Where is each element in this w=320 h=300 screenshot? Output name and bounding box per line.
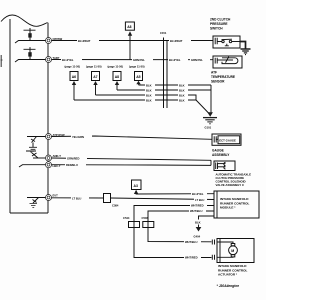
svg-text:(page 11-50): (page 11-50) [86, 65, 102, 69]
svg-text:C546: C546 [142, 216, 149, 220]
connector ref box A3 (to intake manifold runner control module) [132, 180, 142, 194]
scan artifact left edge [1, 55, 3, 67]
svg-text:RED/BLU: RED/BLU [66, 163, 78, 167]
ground reference G404 [194, 235, 201, 239]
ground bus junction to G101 [196, 85, 213, 117]
PCM internal wire row 5 [19, 165, 46, 167]
svg-text:C584: C584 [112, 204, 119, 208]
svg-text:A8: A8 [127, 25, 131, 29]
svg-text:WHT/RED: WHT/RED [185, 256, 198, 260]
PCM internal driver row 6 with ground [27, 198, 46, 208]
svg-text:GRN/YEL: GRN/YEL [191, 58, 203, 62]
svg-text:(page 11-50): (page 11-50) [65, 65, 81, 69]
PCM internal pull-up circuit row 1 [15, 28, 46, 43]
2ND CLUTCH PRESSURE SWITCH [210, 18, 240, 49]
connector ref box A7 [92, 72, 100, 96]
svg-text:BLK: BLK [195, 221, 201, 225]
in-line connector C546 on WHT/BLU [142, 216, 154, 228]
BLK ground wire 1 [139, 83, 212, 87]
svg-text:YEL/GRN: YEL/GRN [72, 135, 84, 139]
BLK ground wire from module [195, 216, 214, 232]
page reference texts above arrow connectors [65, 65, 145, 69]
INTAKE MANIFOLD RUNNER CONTROL ACTUATOR [212, 239, 254, 277]
svg-text:WHT/BLU: WHT/BLU [185, 240, 197, 244]
svg-text:AND-T: AND-T [53, 154, 62, 158]
BLK ground wire 3 [96, 93, 197, 100]
PCM internal driver row 4 [26, 151, 46, 158]
PCM internal pull-up circuit row 2 [15, 47, 46, 62]
svg-text:C544: C544 [123, 216, 130, 220]
svg-text:LT BLU: LT BLU [195, 198, 204, 202]
wire row1 BLU/WHT to 2nd clutch pressure switch [52, 39, 214, 43]
in-line connector C584 on row6 [104, 194, 119, 208]
terminal AND-T row4 [46, 154, 62, 161]
svg-text:LT BLU: LT BLU [72, 196, 81, 200]
BLK ground wire 4 [74, 98, 196, 102]
svg-text:BLU/YEL: BLU/YEL [169, 58, 181, 62]
wire row2 BLU/YEL - GRN/YEL to ATF temperature sensor [52, 58, 214, 62]
svg-text:G101: G101 [205, 126, 212, 130]
svg-text:WHT/BLU: WHT/BLU [190, 209, 202, 213]
svg-text:BLK: BLK [179, 83, 185, 87]
GAUGE ASSEMBLY with ECT GAUGE [212, 134, 241, 157]
svg-text:BLK: BLK [179, 93, 185, 97]
svg-text:PRESSURE: PRESSURE [210, 22, 228, 26]
svg-text:ATF: ATF [211, 71, 217, 75]
terminal TAFP row2 [46, 56, 60, 63]
wire WHT/BLU module to actuator [148, 209, 214, 244]
svg-text:SWITCH: SWITCH [210, 27, 223, 31]
connector ref box A8 [113, 72, 121, 91]
svg-text:BLK: BLK [179, 98, 185, 102]
connector C151 [160, 31, 167, 108]
branch wire with up arrow off row2 [128, 31, 132, 59]
svg-text:A8: A8 [115, 75, 119, 79]
BLK ground wire 2 [117, 88, 211, 92]
svg-text:WHT/RED: WHT/RED [191, 204, 204, 208]
svg-text:2ND CLUTCH: 2ND CLUTCH [210, 18, 231, 22]
AUTOMATIC TRANSAXLE CLUTCH PRESSURE CONTROL SOLENOID VALVE ASSEMBLY C [211, 160, 251, 187]
in-line connector C544 on WHT/RED [123, 216, 140, 228]
svg-text:GRN/YEL: GRN/YEL [133, 58, 145, 62]
wire row6 LT BLU from EVT terminal [52, 196, 215, 200]
svg-text:BLK: BLK [146, 98, 152, 102]
svg-text:A7: A7 [93, 75, 97, 79]
wire WHT/RED module to actuator [134, 204, 214, 260]
svg-text:BLK: BLK [146, 93, 152, 97]
svg-text:ACTUATOR *: ACTUATOR * [218, 273, 238, 277]
svg-text:A3: A3 [134, 184, 138, 188]
ground G101 [203, 118, 217, 130]
svg-text:BLU/YEL: BLU/YEL [192, 192, 204, 196]
terminal EVT row6 [46, 194, 59, 201]
svg-text:SENSOR: SENSOR [211, 80, 225, 84]
svg-text:A5: A5 [136, 75, 140, 79]
svg-text:A6: A6 [72, 75, 76, 79]
svg-text:ECT GAUGE: ECT GAUGE [219, 138, 236, 142]
svg-text:TEMPERATURE: TEMPERATURE [211, 75, 235, 79]
svg-text:BLU/YEL: BLU/YEL [62, 58, 74, 62]
wire row3 YEL/GRN to gauge assembly [52, 135, 213, 140]
terminal ATP RVW row3 [46, 133, 66, 140]
ATF TEMPERATURE SENSOR [211, 56, 242, 84]
INTAKE MANIFOLD RUNNER CONTROL MODULE [214, 191, 259, 218]
svg-text:BLU/WHT: BLU/WHT [78, 39, 91, 43]
wire row5 RED/BLU to solenoid [52, 163, 212, 167]
svg-text:VALVE ASSEMBLY C: VALVE ASSEMBLY C [216, 183, 245, 187]
connector ref box A8 (row2 branch) [125, 22, 134, 30]
svg-text:EVT: EVT [53, 194, 59, 198]
wire BLU/YEL to module [136, 192, 214, 196]
connector ref box A5 [135, 72, 143, 86]
PCM internal driver row 3 with ground [27, 137, 46, 152]
svg-text:BLK: BLK [146, 83, 152, 87]
svg-text:ASSEMBLY: ASSEMBLY [212, 153, 230, 157]
ground for 2nd clutch pressure switch [240, 42, 251, 55]
svg-text:C151: C151 [160, 31, 167, 35]
svg-text:G404: G404 [194, 235, 201, 239]
svg-text:BLU/WHT: BLU/WHT [170, 39, 183, 43]
footnote engine note [217, 284, 240, 288]
svg-text:* J30A4engine: * J30A4engine [217, 284, 240, 288]
connector ref box A6 [70, 72, 78, 101]
wire row4 GRN/RED to solenoid [52, 156, 212, 160]
svg-text:M: M [231, 249, 234, 253]
svg-text:(page 11-50): (page 11-50) [108, 65, 124, 69]
svg-text:MODULE *: MODULE * [220, 206, 236, 210]
wire label LT BLU at module [194, 198, 207, 202]
svg-text:(page 11-50): (page 11-50) [129, 65, 145, 69]
terminal LBC-T row5 [46, 162, 61, 169]
PCM module boundary (left block with wavy page-break top) [1, 15, 48, 213]
svg-text:BLK: BLK [146, 88, 152, 92]
svg-text:BLK: BLK [179, 88, 185, 92]
svg-text:GRN/RED: GRN/RED [67, 156, 79, 160]
terminal OP2SW row1 [46, 37, 63, 44]
